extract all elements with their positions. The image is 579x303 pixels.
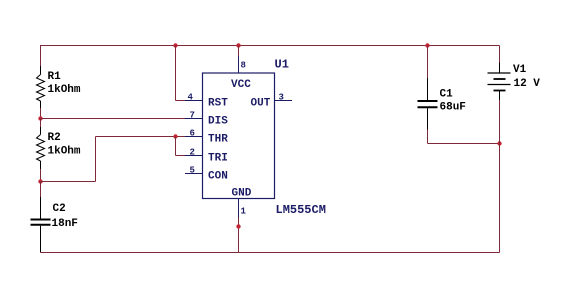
wire V1 to ground rail (499, 100, 501, 253)
resistor R1 (37, 66, 81, 108)
wire C1 bottom to battery branch (428, 130, 500, 144)
node A junction R1/R2/DIS (38, 116, 42, 120)
wire THR net horizontal (to pin 6) (96, 136, 186, 138)
node E junction top rail / pin 8 (236, 43, 240, 47)
wire rail right corner down to V1 (499, 46, 501, 63)
node H junction C1 wire / V1 branch (497, 141, 501, 145)
svg-text:1kOhm: 1kOhm (48, 146, 81, 158)
pin 4 stub (185, 93, 203, 103)
capacitor C1 (418, 78, 466, 130)
svg-text:12 V: 12 V (514, 78, 541, 90)
svg-text:U1: U1 (275, 58, 289, 72)
wire bottom ground rail (41, 252, 500, 254)
pin 1 stub (239, 199, 247, 218)
svg-text:7: 7 (190, 111, 195, 121)
svg-text:R1: R1 (48, 71, 62, 83)
svg-text:DIS: DIS (208, 116, 228, 128)
capacitor C2 (31, 197, 78, 253)
svg-text:TRI: TRI (208, 153, 228, 165)
wire THR riser vertical (95, 137, 97, 182)
node F junction on pin 1 wire (236, 224, 240, 228)
wire R1 to node A (40, 108, 42, 119)
svg-text:R2: R2 (48, 132, 61, 144)
svg-text:2: 2 (190, 148, 195, 158)
wire DIS net (node A to pin 7) (41, 118, 186, 120)
pin 8 stub (239, 56, 246, 73)
svg-text:4: 4 (188, 93, 194, 103)
svg-text:1: 1 (241, 207, 247, 217)
svg-text:1kOhm: 1kOhm (48, 84, 81, 96)
svg-text:CON: CON (208, 171, 228, 183)
wire TRI vertical (node C to pin 2) (176, 137, 186, 156)
wire node B to THR riser (41, 181, 96, 183)
wire R2 to node B (40, 169, 42, 182)
wire left rail top (rail to R1) (40, 45, 42, 66)
wire rail to pin 8 (238, 46, 240, 57)
svg-text:C2: C2 (53, 203, 66, 215)
svg-text:RST: RST (208, 98, 228, 110)
svg-text:C1: C1 (440, 89, 454, 101)
svg-text:OUT: OUT (251, 98, 271, 110)
wire node A to R2 (40, 119, 42, 128)
svg-text:68uF: 68uF (440, 102, 466, 114)
wire top VCC rail (41, 45, 500, 47)
svg-text:3: 3 (279, 93, 284, 103)
wire pin 1 to ground rail (238, 218, 240, 253)
pin 2 stub (185, 148, 203, 158)
wire rail to C1 (427, 46, 429, 79)
node G junction top rail / C1 (425, 43, 429, 47)
wire RST riser (rail to pin 4) (176, 46, 186, 101)
resistor R2 (37, 127, 81, 169)
pin 6 stub (185, 129, 203, 139)
svg-text:VCC: VCC (231, 79, 251, 91)
svg-text:5: 5 (190, 166, 195, 176)
svg-text:8: 8 (241, 61, 246, 71)
pin 5 stub CON unconnected (185, 166, 203, 176)
svg-text:6: 6 (190, 129, 195, 139)
svg-text:18nF: 18nF (52, 218, 78, 230)
svg-text:GND: GND (232, 188, 252, 200)
pin 3 stub OUT (275, 93, 293, 103)
node B junction R2/C2/THR (38, 179, 42, 183)
svg-text:THR: THR (208, 134, 228, 146)
svg-text:V1: V1 (513, 64, 527, 76)
svg-text:LM555CM: LM555CM (276, 203, 326, 217)
op-amp U1 LM555CM body (203, 58, 326, 218)
battery V1 12V (488, 63, 541, 101)
pin 7 stub (185, 111, 203, 121)
wire node B to C2 (40, 182, 42, 198)
node D junction top rail / RST riser (173, 43, 177, 47)
node C junction THR/TRI (173, 134, 177, 138)
